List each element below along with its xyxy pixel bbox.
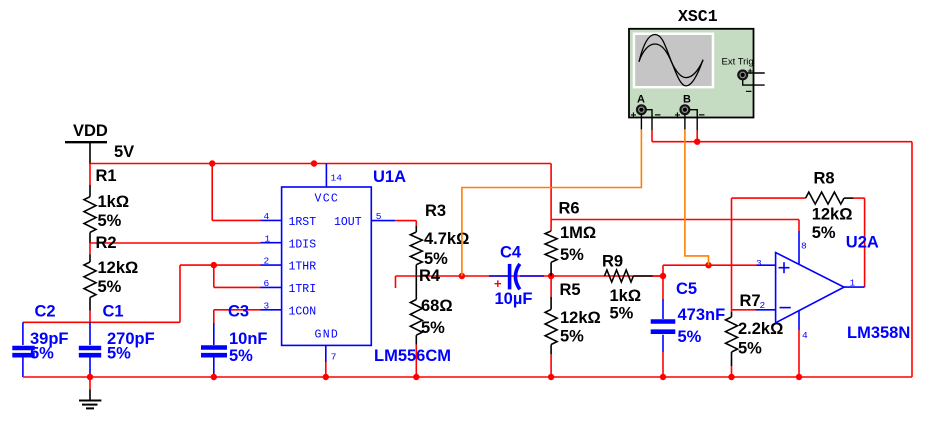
svg-text:1kΩ: 1kΩ xyxy=(98,193,130,211)
svg-text:1OUT: 1OUT xyxy=(334,216,362,229)
svg-text:3: 3 xyxy=(756,258,762,269)
pin stubs left xyxy=(261,219,282,221)
capacitor C5 xyxy=(651,280,725,377)
svg-text:5%: 5% xyxy=(738,340,762,358)
junction pin14 on VDD rail xyxy=(311,160,317,166)
svg-text:8: 8 xyxy=(801,241,807,252)
svg-text:2: 2 xyxy=(264,256,270,267)
wire TRI row xyxy=(214,286,261,288)
wire ground rail xyxy=(23,376,912,378)
junction orange A tap xyxy=(459,273,465,279)
svg-text:473nF: 473nF xyxy=(678,306,726,324)
svg-text:1DIS: 1DIS xyxy=(289,238,317,251)
svg-text:10µF: 10µF xyxy=(495,290,533,308)
svg-text:1CON: 1CON xyxy=(289,305,317,318)
svg-text:1kΩ: 1kΩ xyxy=(610,287,642,305)
wire THR-TRI link xyxy=(213,265,215,287)
svg-text:R6: R6 xyxy=(559,200,580,218)
svg-text:68Ω: 68Ω xyxy=(421,297,453,315)
junction scope B tap xyxy=(705,262,711,268)
svg-text:−: − xyxy=(746,86,752,98)
svg-text:−: − xyxy=(655,110,661,122)
wire THR row xyxy=(180,264,261,266)
op-amp U2A xyxy=(755,220,910,378)
capacitor C1 xyxy=(79,303,155,378)
svg-text:C4: C4 xyxy=(500,244,522,262)
svg-text:U2A: U2A xyxy=(846,234,879,252)
junction scope grounds xyxy=(694,139,700,145)
pin stub out xyxy=(371,220,395,222)
svg-text:R5: R5 xyxy=(560,281,581,299)
svg-text:B: B xyxy=(683,94,691,106)
svg-text:−: − xyxy=(699,110,705,122)
junction RST on VDD rail xyxy=(209,160,215,166)
svg-text:12kΩ: 12kΩ xyxy=(98,259,139,277)
svg-text:C3: C3 xyxy=(228,303,249,321)
pin stub 7 xyxy=(325,345,327,362)
wire VDD to R6 top xyxy=(551,164,799,220)
resistor R9 xyxy=(602,253,663,323)
svg-text:5%: 5% xyxy=(30,345,54,363)
svg-text:R3: R3 xyxy=(425,202,446,220)
svg-text:4: 4 xyxy=(802,330,808,341)
svg-text:C2: C2 xyxy=(35,303,56,321)
svg-text:5%: 5% xyxy=(424,250,448,268)
resistor R4 xyxy=(410,267,452,377)
resistor R2 xyxy=(84,234,138,311)
junction opamp pin4 ground rail xyxy=(796,374,802,380)
resistor R7 xyxy=(726,292,784,377)
svg-text:VDD: VDD xyxy=(73,122,108,140)
svg-text:R1: R1 xyxy=(96,167,117,185)
pin stub 14 xyxy=(325,164,327,188)
wire RST branch xyxy=(212,164,260,221)
junction R6-R5 xyxy=(548,273,554,279)
svg-text:1TRI: 1TRI xyxy=(289,283,317,296)
oscilloscope XSC1 xyxy=(629,7,765,130)
svg-text:5%: 5% xyxy=(421,319,445,337)
svg-text:3: 3 xyxy=(264,300,270,311)
svg-text:12kΩ: 12kΩ xyxy=(812,206,853,224)
svg-text:5%: 5% xyxy=(812,224,836,242)
capacitor C4 xyxy=(489,244,544,309)
resistor R8 xyxy=(732,170,865,243)
capacitor C2 xyxy=(12,303,68,378)
wire pin2 row xyxy=(732,309,756,311)
svg-text:5V: 5V xyxy=(114,143,134,161)
svg-text:C5: C5 xyxy=(676,280,697,298)
svg-text:6: 6 xyxy=(264,278,270,289)
svg-text:U1A: U1A xyxy=(373,168,406,186)
svg-text:5%: 5% xyxy=(107,345,131,363)
junction THR xyxy=(211,262,217,268)
svg-text:R4: R4 xyxy=(419,267,441,285)
svg-text:+: + xyxy=(631,111,637,122)
svg-text:5%: 5% xyxy=(560,246,584,264)
svg-text:R2: R2 xyxy=(96,234,117,252)
svg-text:GND: GND xyxy=(315,329,340,342)
resistor R6 xyxy=(545,200,596,277)
svg-text:14: 14 xyxy=(331,173,343,184)
svg-text:LM556CM: LM556CM xyxy=(374,347,451,365)
junction R7 ground rail xyxy=(728,374,734,380)
svg-text:C1: C1 xyxy=(103,303,124,321)
wire scope channel A orange xyxy=(462,129,642,276)
svg-text:+: + xyxy=(748,66,753,76)
svg-text:7: 7 xyxy=(331,352,337,363)
svg-text:1: 1 xyxy=(850,278,856,289)
wire scope channel B orange xyxy=(685,129,709,265)
resistor R5 xyxy=(545,276,601,377)
junction C3 ground rail xyxy=(211,374,217,380)
svg-text:12kΩ: 12kΩ xyxy=(560,309,601,327)
svg-text:1: 1 xyxy=(265,233,271,244)
svg-text:5%: 5% xyxy=(98,278,122,296)
svg-text:1MΩ: 1MΩ xyxy=(560,224,596,242)
svg-text:5%: 5% xyxy=(678,328,702,346)
wire cap top row C2-C1-THR xyxy=(23,265,180,322)
svg-text:10nF: 10nF xyxy=(229,330,268,348)
wire output to R8 xyxy=(864,198,866,287)
ext trig terminal xyxy=(738,71,747,80)
svg-text:R9: R9 xyxy=(602,253,623,271)
wire R4 row xyxy=(396,276,662,288)
svg-text:R7: R7 xyxy=(740,292,761,310)
ground xyxy=(79,377,101,408)
wire VDD down to R1 xyxy=(89,164,91,186)
resistor R3 xyxy=(410,202,469,276)
junction R5 ground rail xyxy=(548,374,554,380)
svg-text:LM358N: LM358N xyxy=(847,324,910,342)
svg-text:5%: 5% xyxy=(560,328,584,346)
capacitor C3 xyxy=(201,303,268,378)
svg-text:5%: 5% xyxy=(98,212,122,230)
wire DIS row xyxy=(90,242,261,244)
junction R9-C5 xyxy=(660,273,666,279)
svg-text:XSC1: XSC1 xyxy=(678,7,718,26)
svg-text:+: + xyxy=(494,276,502,291)
svg-text:R8: R8 xyxy=(814,170,835,188)
wire VDD rail xyxy=(90,163,551,165)
wire CON row xyxy=(214,309,261,311)
junction R4 ground rail xyxy=(413,374,419,380)
svg-text:5%: 5% xyxy=(610,305,634,323)
svg-text:+: + xyxy=(675,111,681,122)
svg-text:4: 4 xyxy=(264,211,270,222)
junction C5 ground rail xyxy=(660,374,666,380)
op-amp U1A 556 timer box xyxy=(261,164,452,378)
svg-text:5%: 5% xyxy=(229,347,253,365)
svg-text:5: 5 xyxy=(376,211,382,222)
svg-text:VCC: VCC xyxy=(315,193,340,206)
svg-text:1THR: 1THR xyxy=(289,261,317,274)
wire feedback vertical xyxy=(731,198,733,310)
svg-text:2: 2 xyxy=(760,300,766,311)
svg-text:1RST: 1RST xyxy=(289,216,317,229)
wire scope ground net xyxy=(652,130,912,377)
wire OUT to R3 xyxy=(395,221,416,226)
wire C5 node vertical xyxy=(663,265,758,299)
power VDD xyxy=(65,122,134,164)
junction pin7 ground rail xyxy=(323,374,329,380)
resistor R1 xyxy=(84,167,129,243)
junction C1 ground rail xyxy=(87,374,93,380)
svg-text:A: A xyxy=(637,94,645,106)
wire R2 bottom to cap row xyxy=(89,311,91,323)
